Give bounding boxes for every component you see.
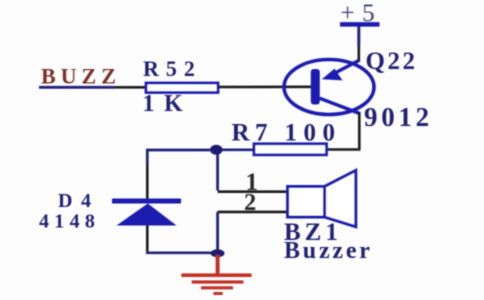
wire — [218, 86, 312, 89]
svg-text:R52: R52 — [143, 56, 202, 81]
wire — [358, 112, 361, 150]
svg-text:R7: R7 — [232, 120, 274, 147]
wire — [216, 212, 219, 250]
junction — [210, 145, 223, 155]
svg-text:BUZZ: BUZZ — [41, 64, 121, 89]
svg-text:Q22: Q22 — [366, 48, 418, 75]
transistor Q22 — [284, 60, 374, 115]
svg-text:D4: D4 — [58, 190, 99, 212]
wire — [146, 226, 149, 253]
wire — [146, 149, 210, 152]
resistor R52 — [146, 83, 218, 93]
wire — [114, 86, 146, 89]
wire — [218, 190, 289, 193]
wire — [147, 251, 212, 253]
wire — [146, 163, 149, 199]
svg-text:1K: 1K — [143, 91, 193, 117]
wire — [327, 148, 361, 151]
power +5 — [340, 0, 382, 27]
buzzer BZ1 — [288, 170, 356, 226]
wire — [218, 211, 289, 214]
svg-text:4148: 4148 — [39, 211, 100, 233]
wire — [39, 86, 114, 89]
junction ground node — [211, 249, 225, 257]
ground — [181, 255, 251, 294]
wire — [216, 155, 219, 191]
svg-text:100: 100 — [285, 120, 342, 147]
svg-text:9012: 9012 — [364, 102, 433, 132]
wire — [357, 46, 360, 61]
wire — [357, 27, 360, 47]
svg-text:Buzzer: Buzzer — [284, 238, 373, 264]
resistor R7 — [220, 144, 327, 155]
diode D4 — [112, 201, 181, 226]
wire — [146, 150, 149, 163]
